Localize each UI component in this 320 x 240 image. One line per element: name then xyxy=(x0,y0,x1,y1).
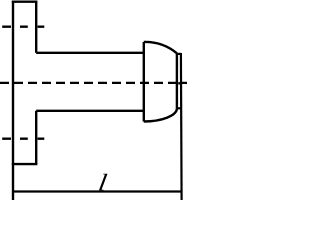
flange left edge + left extension line xyxy=(12,1,14,200)
flange bottom edge xyxy=(12,163,38,165)
dimension label l (italic serif glyph outline) xyxy=(99,174,108,191)
head right tip flat xyxy=(176,54,178,109)
flange right edge lower segment xyxy=(35,111,37,164)
shaft bottom edge xyxy=(36,110,144,112)
upper hole centerline xyxy=(2,26,44,28)
head bottom arc xyxy=(144,108,177,121)
lower hole centerline xyxy=(2,138,44,140)
head left face xyxy=(143,42,145,122)
flange top edge xyxy=(12,1,38,3)
tick joining head tip to extension line (top) xyxy=(177,53,181,55)
flange right edge upper segment xyxy=(35,2,37,53)
head top arc xyxy=(144,42,177,53)
centerline dash bit between head tip and extension line xyxy=(178,82,180,84)
dimension line l xyxy=(13,190,181,192)
main centerline (dashed axis) xyxy=(0,82,188,84)
tick joining head tip to extension line (bottom) xyxy=(177,107,182,109)
right extension line xyxy=(180,53,183,200)
shaft top edge xyxy=(36,52,144,54)
